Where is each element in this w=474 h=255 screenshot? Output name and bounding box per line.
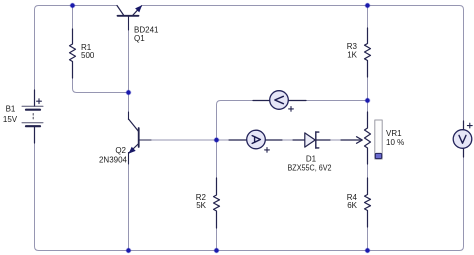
node on top rail at R3 branch <box>365 3 371 9</box>
transistor Q1 emitter lead <box>133 6 142 15</box>
transistor Q2 collector stub <box>128 112 130 120</box>
battery B1 bottom lead <box>34 127 36 143</box>
node bottom rail at R2 <box>214 248 220 254</box>
wire R2 bottom lead to bottom rail <box>216 211 218 251</box>
voltmeter V2 plus sign <box>289 107 294 112</box>
svg-text:1K: 1K <box>347 51 357 60</box>
wire node to VR1 top lead <box>367 101 369 129</box>
potentiometer VR1 wiper arrow <box>341 137 362 144</box>
wire Q1 base line down to Q2 collector <box>128 17 130 120</box>
resistor R1 <box>70 29 76 78</box>
node R1 bottom / Q1 base junction <box>126 90 132 96</box>
battery B1 plus sign <box>37 99 42 104</box>
diode D1 cathode bar (zener) <box>316 132 319 148</box>
voltmeter V2 letter V rotated <box>275 96 284 103</box>
node R3 bottom / V2 wire / VR1 top junction <box>365 98 371 104</box>
voltmeter V2 leads <box>253 100 306 102</box>
voltmeter V1 letter V <box>459 135 466 143</box>
battery B1 cell divider dots <box>32 114 34 121</box>
transistor Q1 base stub <box>128 17 130 31</box>
wire top-right rail (Q1 emitter to right edge, down to voltmeter V1) <box>142 6 464 130</box>
wire top-left rail (battery top to Q1 collector) <box>35 6 118 106</box>
node bottom rail at Q2 emitter <box>126 248 132 254</box>
wire R3 bottom lead to node <box>367 61 369 101</box>
svg-text:VR1: VR1 <box>386 129 402 138</box>
svg-text:5K: 5K <box>196 201 206 210</box>
voltmeter V1 leads <box>463 121 465 157</box>
voltmeter V2 circle <box>270 91 289 110</box>
battery B1 top thin plate <box>22 105 43 107</box>
wire voltmeter V2 to R3 bottom node <box>289 100 368 102</box>
svg-text:2N3904: 2N3904 <box>99 156 128 165</box>
wire ammeter A1 to diode D1 <box>266 139 306 141</box>
wire R1 bottom lead to junction with Q1 base line <box>73 62 129 93</box>
transistor Q2 emitter stub <box>128 153 130 165</box>
battery B1 top lead <box>34 90 36 106</box>
wire D1 cathode to VR1 wiper <box>316 139 357 141</box>
ammeter A1 circle <box>247 130 266 149</box>
transistor Q2 collector lead <box>129 119 139 131</box>
battery B1 top thick plate <box>26 109 40 111</box>
ammeter A1 leads <box>229 139 282 141</box>
battery B1 bottom thick plate <box>26 125 40 127</box>
node on top rail at R1 branch <box>70 3 76 9</box>
wire R2 top lead from node <box>216 140 218 195</box>
voltmeter V1 circle <box>453 130 472 149</box>
wire Q2 emitter line down to bottom rail <box>128 153 130 251</box>
wire VR1 bottom lead to R4 top <box>367 148 369 195</box>
potentiometer VR1 zigzag <box>365 112 371 164</box>
svg-text:6K: 6K <box>347 201 357 210</box>
svg-text:Q1: Q1 <box>134 34 145 43</box>
resistor R4 <box>365 178 371 227</box>
diode D1 triangle <box>305 133 315 147</box>
wire R3 top lead from top rail node <box>367 6 369 44</box>
svg-text:10 %: 10 % <box>386 138 404 147</box>
voltmeter V1 plus sign <box>467 123 472 128</box>
transistor Q1 base bar <box>118 15 139 17</box>
battery B1 bottom thin plate <box>22 122 43 124</box>
wire R4 bottom lead to bottom rail <box>367 211 369 251</box>
wire node up-branch to voltmeter V2 <box>217 101 270 141</box>
potentiometer VR1 slider widget <box>375 120 382 159</box>
ammeter A1 plus sign <box>265 148 270 153</box>
svg-text:500: 500 <box>81 51 95 60</box>
svg-text:BZX55C, 6V2: BZX55C, 6V2 <box>288 164 332 173</box>
transistor Q2 base bar <box>138 128 140 147</box>
svg-text:B1: B1 <box>6 105 16 114</box>
transistor Q2 emitter lead <box>129 144 138 153</box>
ammeter A1 letter A rotated <box>252 136 260 144</box>
wire R1 top lead from top rail <box>72 6 74 45</box>
transistor Q1 emitter arrow <box>135 5 142 12</box>
diode D1 cathode lead <box>316 139 330 141</box>
resistor R2 <box>214 178 220 228</box>
svg-text:Q2: Q2 <box>115 146 126 155</box>
resistor R3 <box>365 28 371 77</box>
diode D1 anode lead <box>293 139 305 141</box>
transistor Q2 base stub <box>140 139 152 141</box>
node bottom rail at R4 <box>365 248 371 254</box>
wire right-bottom rail (voltmeter V1 to bottom rail to battery bottom) <box>35 128 464 251</box>
svg-text:D1: D1 <box>306 155 317 164</box>
transistor Q2 emitter arrow <box>129 147 136 154</box>
node Q2 base / R2 / V2 branch junction <box>214 137 220 143</box>
potentiometer VR1 slider knob at 10% <box>375 153 381 158</box>
svg-text:15V: 15V <box>3 115 18 124</box>
transistor Q1 collector lead <box>117 6 124 16</box>
wire Q2 base to node and ammeter A1 <box>140 139 247 141</box>
